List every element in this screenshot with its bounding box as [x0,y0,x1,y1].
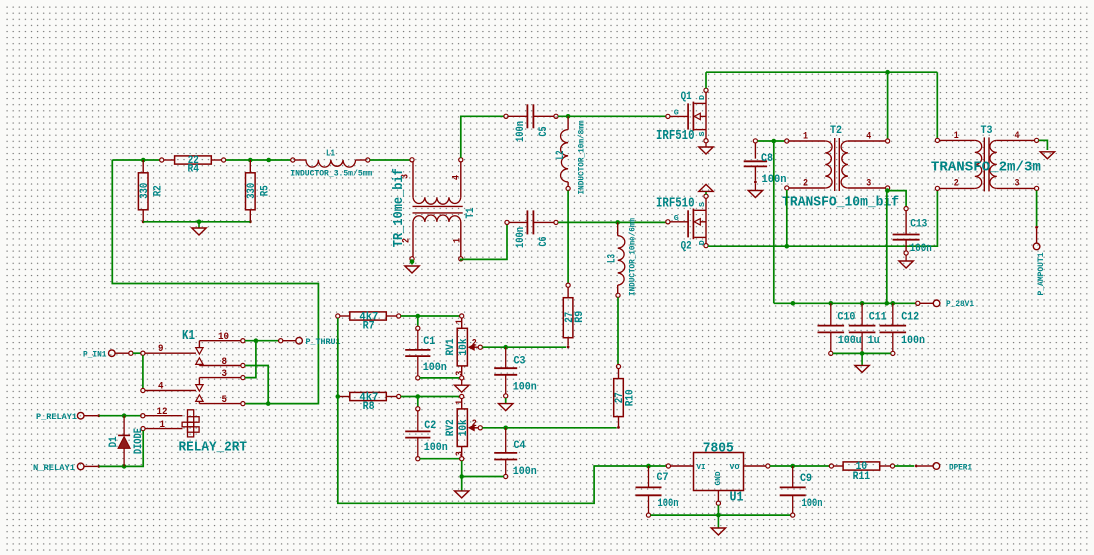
svg-text:C10: C10 [837,312,855,324]
ground [461,380,463,385]
relay K1 coil [188,410,194,437]
svg-text:2: 2 [472,419,477,430]
svg-text:TRANSFO_2m/3m: TRANSFO_2m/3m [931,160,1041,176]
wire C6 to Q2 gate [558,221,666,223]
junction [459,474,464,479]
wire C4 to gnd node [464,476,504,478]
svg-text:3: 3 [866,179,871,190]
svg-text:100n: 100n [910,243,932,255]
resistor R5 [249,160,251,173]
wire RV1 wiper to R9 [482,346,566,348]
wire pin9 to pin4 [142,355,144,388]
K1 contact 2 [198,378,200,385]
wire T1 pin4 to C5 [461,116,504,158]
junction [772,139,777,144]
junction [266,158,271,163]
wire rail to T3 pin1 [936,72,938,138]
wire rail to T2 pin4 [887,72,889,139]
K1 pin 3 [199,377,241,379]
capacitor C8 [753,139,757,143]
wire RV2 pin3 down [461,461,463,477]
svg-text:INDUCTOR_3.5m/5mm: INDUCTOR_3.5m/5mm [290,168,372,178]
junction [566,114,571,119]
wire T1 pin1 to C6 [461,224,507,260]
svg-text:S: S [699,131,707,137]
wire pin10 to P_THRU1 [245,340,279,342]
junction [860,351,865,356]
wire T2 pin2 down [786,190,788,246]
ground flipped [705,192,707,195]
svg-text:100n: 100n [658,498,679,510]
svg-text:R11: R11 [853,471,871,483]
wire pin3 to pin10 [245,341,256,378]
inductor L2 [567,116,569,129]
svg-text:C9: C9 [800,473,812,485]
wire R7 node to VI [338,318,667,503]
svg-text:DIODE: DIODE [133,428,145,454]
svg-text:330: 330 [246,183,258,199]
svg-text:C4: C4 [514,440,526,452]
svg-text:TR_10me_bif: TR_10me_bif [391,168,407,247]
K1 pin 10 [199,340,241,342]
svg-text:GND: GND [715,471,723,486]
wire RV2 wiper to R10 [482,427,616,429]
svg-text:8: 8 [222,356,228,368]
svg-text:2: 2 [803,179,808,190]
resistor R2 [142,160,144,173]
svg-text:DPER1: DPER1 [949,462,972,472]
junction [791,301,796,306]
wire cap bottoms [833,352,891,354]
ground [1040,152,1054,159]
diode D1 [123,416,125,436]
junction [503,345,508,350]
wire top rail [706,71,937,73]
wire L3 to R10 [617,297,619,364]
relay K1 coil pin 1 [141,427,145,431]
resistor R4 [160,158,164,162]
wire [143,221,250,223]
junction [416,314,421,319]
svg-text:L3: L3 [607,254,619,263]
svg-text:10k: 10k [458,338,470,355]
svg-text:T1: T1 [465,207,477,218]
svg-text:3: 3 [222,368,228,380]
junction [716,513,721,518]
svg-text:9: 9 [158,343,164,355]
capacitor C5 [504,114,508,118]
svg-text:L2: L2 [555,151,567,160]
svg-text:1: 1 [803,132,808,143]
svg-text:P_RELAY1: P_RELAY1 [36,412,77,422]
wire T3 pin3 out [1036,190,1038,226]
svg-text:2: 2 [472,338,477,349]
junction [790,464,795,469]
svg-text:R2: R2 [152,185,164,196]
svg-text:10: 10 [218,331,229,343]
junction [615,220,620,225]
svg-text:C2: C2 [424,420,436,432]
svg-text:D: D [699,240,707,246]
wire 28V riser [773,141,775,303]
resistor R7 [336,314,340,318]
wire Q1 drain to rail [705,72,707,88]
transistor Q2 [666,220,670,224]
svg-text:100n: 100n [802,498,823,510]
junction [197,220,202,225]
svg-text:C13: C13 [910,219,927,231]
svg-text:Q1: Q1 [681,91,692,103]
connector P_AMPOUT1 [1035,226,1038,229]
svg-text:100n: 100n [424,442,448,454]
svg-text:R10: R10 [625,389,637,406]
svg-text:P_THRU1: P_THRU1 [306,337,341,347]
capacitor C4 [505,428,507,453]
svg-text:5: 5 [222,394,228,406]
potentiometer RV1 [460,314,464,318]
svg-text:1u: 1u [868,335,880,347]
capacitor C3 [505,347,507,368]
ground [705,143,707,147]
svg-text:3: 3 [455,451,466,456]
svg-text:1: 1 [453,238,464,243]
inductor L3 [617,222,619,235]
svg-text:IRF510: IRF510 [656,128,695,144]
wire VO [770,465,830,467]
svg-text:R5: R5 [259,185,271,196]
junction [885,70,890,75]
svg-text:G: G [674,215,680,223]
ground [505,398,507,404]
svg-text:100n: 100n [515,227,527,248]
wire [401,396,460,398]
svg-text:2: 2 [954,178,959,189]
wire C8 to T2 pin1 [757,140,784,142]
capacitor C6 [505,220,509,224]
svg-text:C7: C7 [657,472,669,484]
wire C2 to RV2 pin3 [420,458,460,460]
capacitor C10 [830,303,832,325]
wire [99,431,143,467]
svg-text:1: 1 [455,319,466,324]
ground [717,515,719,528]
svg-text:T3: T3 [981,125,993,137]
svg-text:1: 1 [160,419,166,431]
regulator U1 7805 [666,464,670,468]
svg-text:4: 4 [158,380,164,392]
transformer T3 [935,138,939,142]
svg-text:C1: C1 [423,336,435,348]
svg-text:12: 12 [157,406,168,418]
relay K1 coil pin 12 [141,414,145,418]
junction [416,394,421,399]
ground [405,266,419,273]
connector P_28V1 [916,301,920,305]
svg-text:4: 4 [866,132,871,143]
wire pin8 to pin5 [245,366,268,404]
wire [226,159,291,161]
junction [891,301,896,306]
svg-text:VO: VO [730,464,741,472]
svg-text:C5: C5 [538,126,550,136]
wire [112,159,159,161]
inductor L1 [291,158,295,162]
junction [254,338,259,343]
wire [370,159,410,161]
wire GND [717,505,719,515]
svg-text:P_28V1: P_28V1 [946,299,974,309]
junction [885,188,890,193]
junction [503,426,508,431]
svg-text:R4: R4 [187,164,199,176]
svg-text:100u: 100u [838,335,862,347]
svg-text:1: 1 [455,400,466,405]
junction [646,464,651,469]
junction [785,244,790,249]
wire L2 to R9 [567,191,569,284]
svg-text:100n: 100n [513,466,537,478]
K1 pin 5 [199,403,241,405]
svg-text:IRF510: IRF510 [656,195,695,211]
svg-text:C6: C6 [538,237,550,247]
ground [754,183,756,190]
svg-text:R9: R9 [574,311,586,323]
svg-text:RV2: RV2 [445,419,457,436]
svg-text:S: S [699,201,707,207]
svg-text:RELAY_2RT: RELAY_2RT [179,440,248,456]
svg-text:4: 4 [452,175,463,180]
svg-text:L1: L1 [326,148,335,159]
wire C1 to RV1 pin3 [420,377,460,379]
capacitor C1 [417,316,419,326]
svg-text:U1: U1 [730,490,744,506]
svg-text:C3: C3 [514,356,526,368]
svg-text:330: 330 [139,183,151,199]
svg-text:100n: 100n [513,382,537,394]
wire T3 pin4 to ground [1039,140,1048,150]
svg-text:P_IN1: P_IN1 [83,350,107,360]
K1 pin 8 [199,365,241,367]
svg-text:C11: C11 [869,312,887,324]
ground [461,477,463,491]
relay K1 contacts [141,351,145,355]
K1 contact 1 [198,341,200,348]
wire [99,415,141,417]
svg-text:D: D [699,94,707,100]
potentiometer RV2 [460,394,464,398]
svg-text:4: 4 [1015,131,1020,142]
wire Q2 drain [708,190,937,246]
wire T2 pin3 down [886,190,889,303]
svg-text:RV1: RV1 [445,338,457,355]
svg-text:T2: T2 [830,125,842,137]
ground [861,353,863,365]
svg-text:100n: 100n [423,362,447,374]
svg-text:D1: D1 [108,436,120,447]
svg-text:3: 3 [455,371,466,376]
svg-text:VI: VI [697,464,706,472]
wire [133,352,141,354]
svg-text:C12: C12 [901,312,919,324]
junction [122,464,127,469]
connector P_RELAY1 [77,412,84,419]
svg-text:R8: R8 [363,401,375,413]
connector P_THRU1 [279,339,283,343]
wire to relay [112,160,318,404]
capacitor C12 [892,303,894,325]
svg-text:1: 1 [954,131,959,142]
transistor Q1 [666,114,670,118]
capacitor C11 [861,303,863,325]
capacitor C7 [646,464,651,469]
svg-text:G: G [674,110,680,118]
svg-text:K1: K1 [182,328,195,344]
svg-text:3: 3 [1015,178,1020,189]
svg-text:100n: 100n [901,335,925,347]
junction [860,301,865,306]
svg-text:TRANSFO_10m_bif: TRANSFO_10m_bif [782,195,899,211]
junction [248,158,253,163]
svg-text:7805: 7805 [703,440,734,456]
capacitor C9 [792,466,794,487]
wire [401,315,460,317]
junction [122,413,127,418]
junction [885,301,890,306]
capacitor C13 [904,207,908,211]
svg-text:P_AMPOUT1: P_AMPOUT1 [1036,253,1046,296]
resistor R9 [566,283,570,287]
ground [905,255,907,261]
svg-text:C8: C8 [761,153,773,165]
wire C5 to Q1 gate [558,115,666,117]
resistor R8 [336,394,341,399]
svg-text:R7: R7 [363,321,375,333]
svg-text:N_RELAY1: N_RELAY1 [33,463,75,473]
ground [198,222,200,228]
junction [266,401,271,406]
junction [141,158,146,163]
resistor R10 [616,364,620,368]
connector P_IN1 [109,350,116,357]
connector N_RELAY1 [77,463,84,470]
junction [829,301,834,306]
wire to C13 [887,191,906,207]
resistor R11 [829,464,833,468]
transformer T2 [785,139,789,143]
capacitor C2 [417,397,419,407]
ground wire [411,261,413,265]
wire 28V rail [774,302,916,304]
transformer T1 [410,158,414,162]
wire C7-GND-C9 bottom [651,514,791,516]
connector DPER1 [915,465,918,468]
svg-text:10k: 10k [458,419,470,436]
svg-text:INDUCTOR_10m/8mm: INDUCTOR_10m/8mm [577,121,587,195]
svg-text:Q2: Q2 [681,240,692,252]
wire [895,465,915,467]
svg-text:100n: 100n [515,121,527,142]
svg-text:INDUCTOR_10me/6mm: INDUCTOR_10me/6mm [627,218,637,296]
